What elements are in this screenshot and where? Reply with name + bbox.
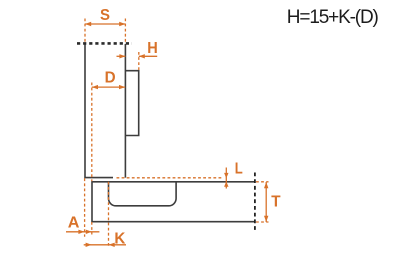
svg-text:H=15+K-(D): H=15+K-(D)	[287, 7, 379, 28]
dimension L	[224, 168, 228, 189]
dimension H lines	[117, 54, 158, 58]
D extension line (door edge plane, dashed)	[91, 83, 93, 182]
door (horizontal, open right end)	[92, 182, 254, 222]
cabinet side panel (vertical, open top)	[85, 44, 125, 178]
cup edge extension line (dashed)	[108, 182, 110, 248]
dimension S line	[85, 22, 125, 26]
dimension T	[264, 182, 268, 222]
door end break line (black dashed)	[254, 173, 256, 231]
dimension K line	[84, 243, 126, 247]
svg-text:A: A	[68, 215, 80, 232]
svg-text:S: S	[100, 7, 110, 24]
svg-text:L: L	[235, 160, 243, 177]
panel top break line (black dotted)	[77, 42, 132, 45]
svg-text:K: K	[114, 230, 125, 247]
hinge cup bored in door	[109, 182, 177, 206]
svg-text:H: H	[147, 40, 158, 57]
svg-text:T: T	[271, 193, 281, 210]
T connector dashes	[256, 182, 269, 222]
dimension A line	[66, 230, 99, 234]
svg-text:D: D	[105, 70, 116, 87]
S extension lines (dashed)	[85, 19, 125, 44]
door edge lower extension (dashed)	[91, 222, 93, 235]
mounting plate on panel inner face	[125, 71, 138, 136]
A extension line (panel left plane, dashed)	[84, 178, 86, 237]
H extension line (dashed)	[138, 52, 140, 70]
dimension D line	[92, 85, 125, 89]
panel front plane extended (orange dashed horizontal)	[117, 177, 223, 179]
